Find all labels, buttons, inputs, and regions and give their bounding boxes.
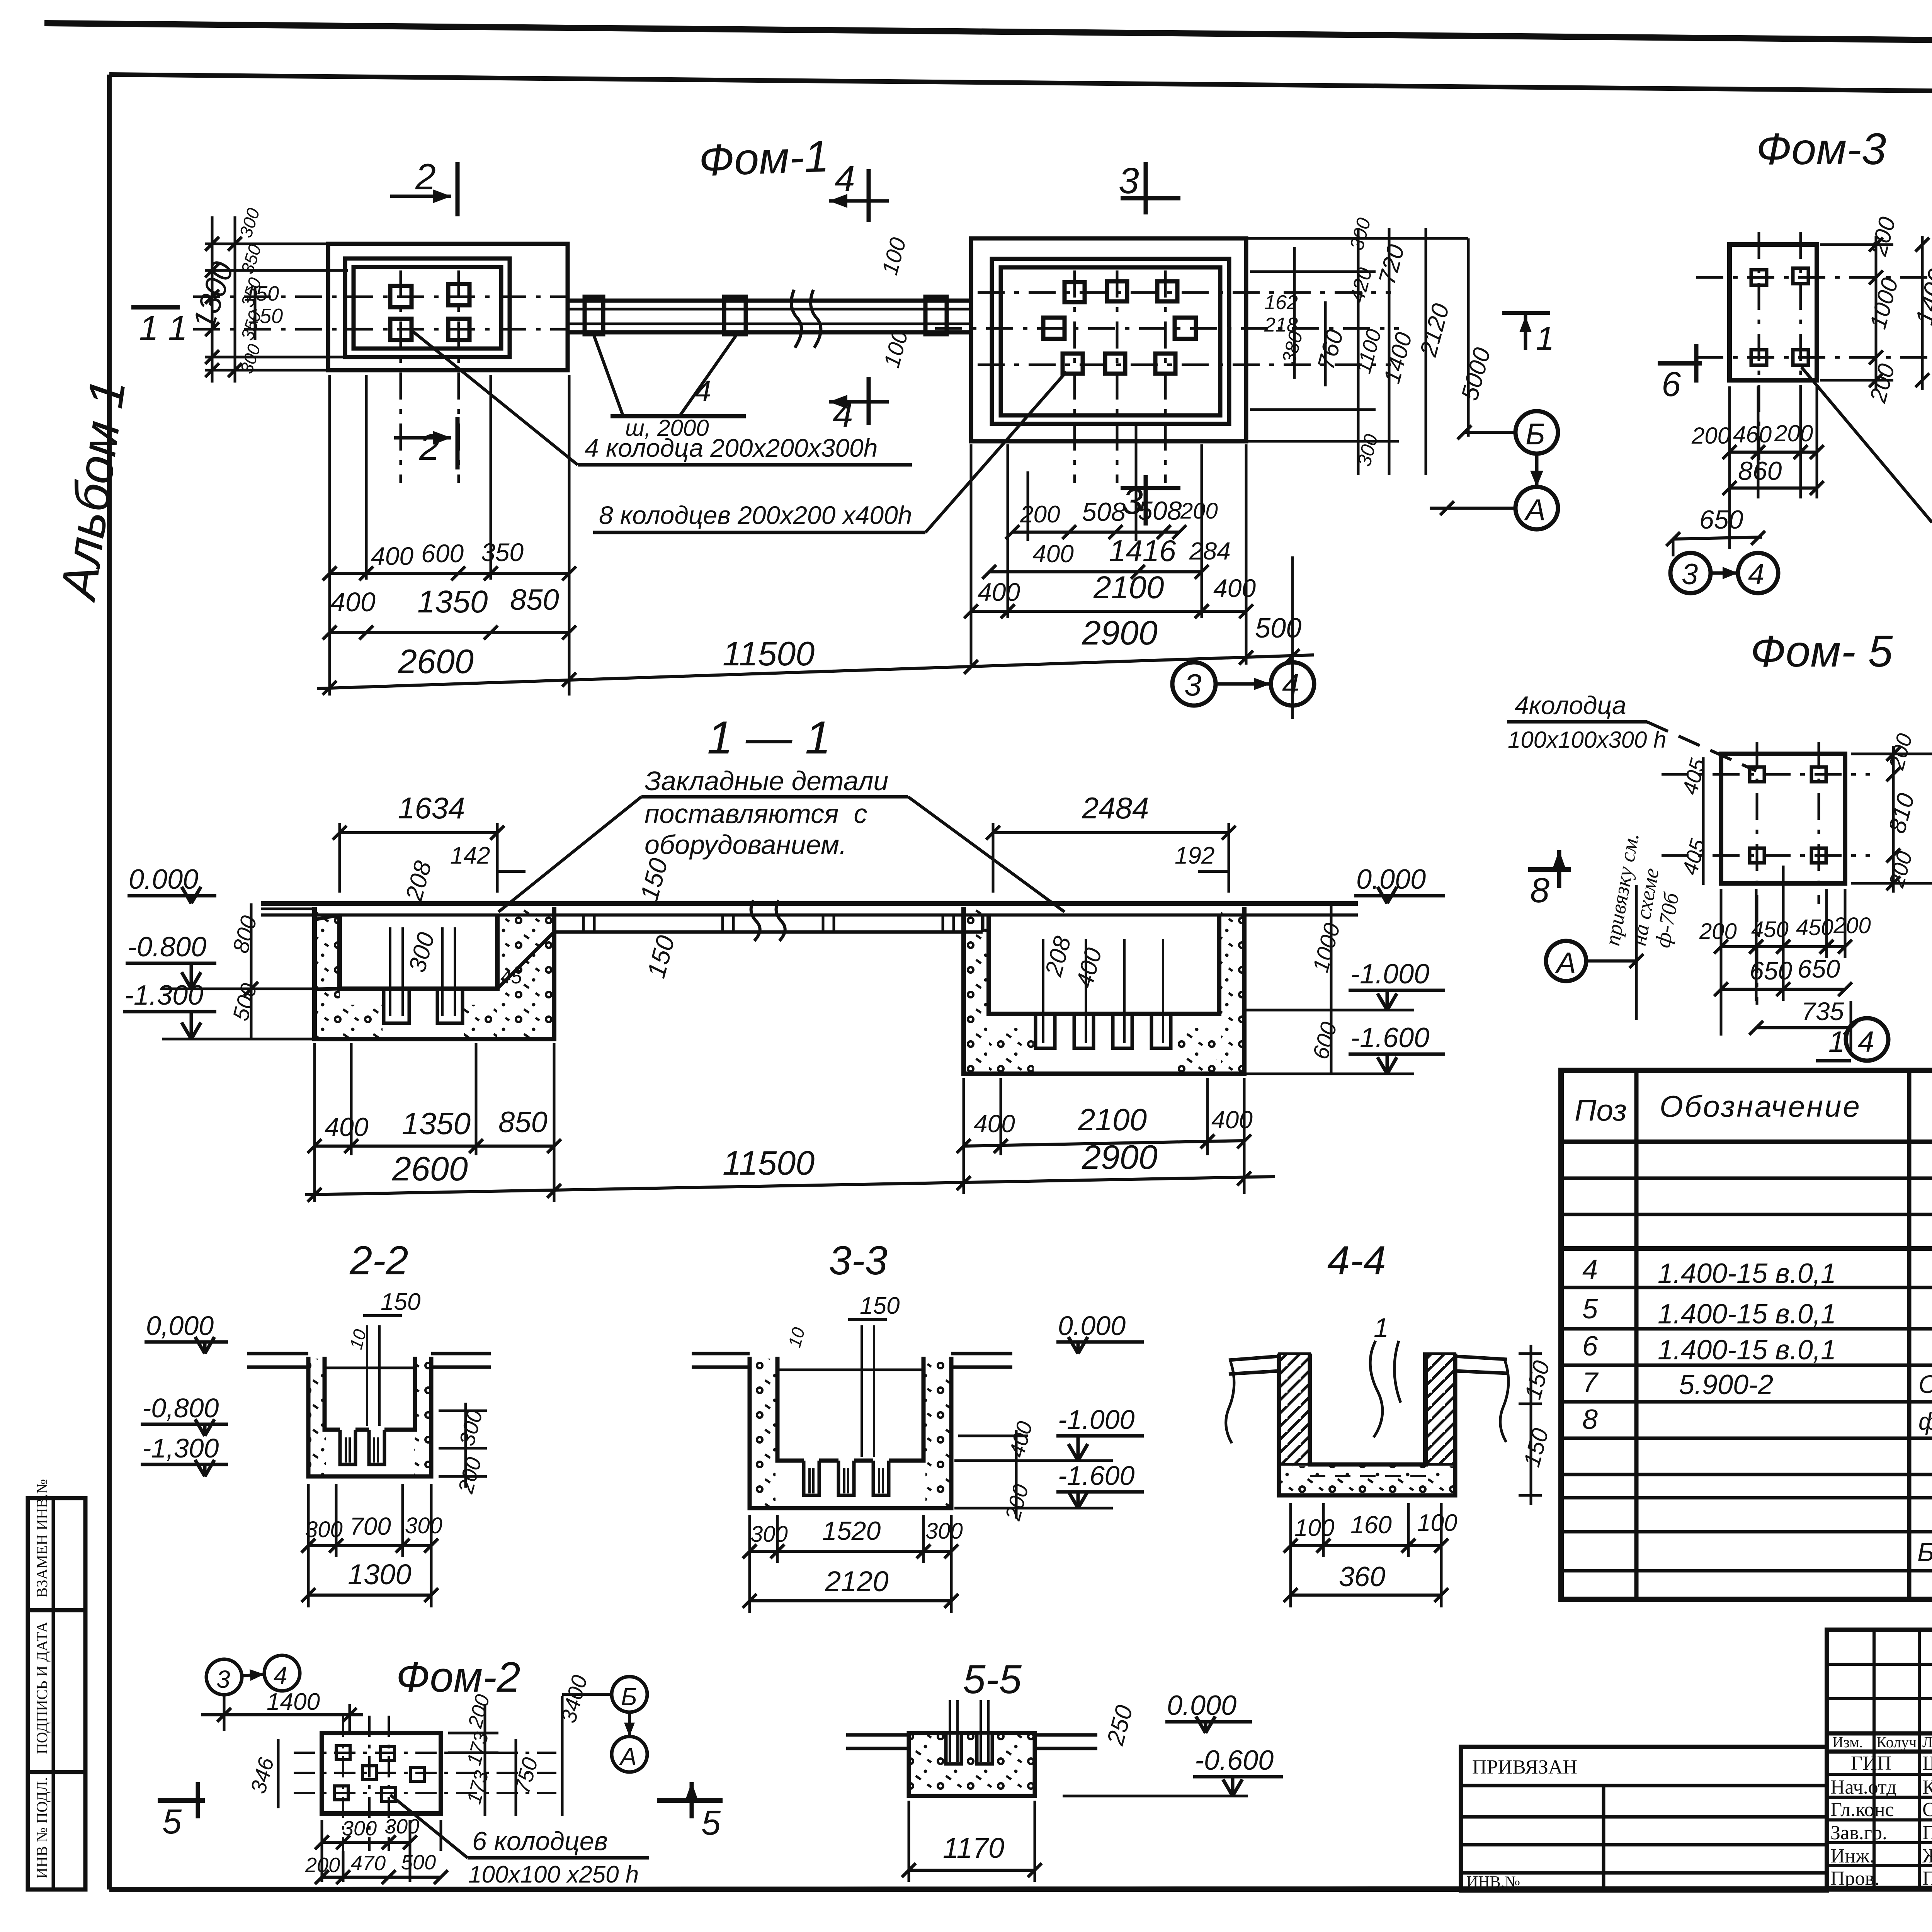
svg-text:400: 400 <box>1032 540 1074 568</box>
svg-text:450: 450 <box>1796 915 1833 940</box>
svg-text:3: 3 <box>1682 558 1698 591</box>
svg-text:350: 350 <box>481 538 524 566</box>
svg-text:400: 400 <box>1211 1106 1253 1134</box>
svg-text:2900: 2900 <box>1082 1138 1158 1176</box>
svg-text:300: 300 <box>750 1522 788 1547</box>
svg-text:1416: 1416 <box>1109 534 1176 568</box>
svg-text:6: 6 <box>1582 1331 1598 1362</box>
svg-text:200: 200 <box>305 1854 340 1877</box>
svg-text:Штейнгардт: Штейнгардт <box>1922 1752 1932 1774</box>
svg-text:1: 1 <box>1536 320 1554 357</box>
svg-text:Изм.: Изм. <box>1832 1733 1863 1751</box>
svg-text:300: 300 <box>405 1513 442 1538</box>
svg-text:360: 360 <box>1339 1561 1385 1592</box>
svg-text:8 колодцев 200х200 х400h: 8 колодцев 200х200 х400h <box>599 501 912 529</box>
svg-text:160: 160 <box>1350 1511 1392 1539</box>
svg-text:1.400-15 в.0,1: 1.400-15 в.0,1 <box>1658 1335 1836 1366</box>
svg-text:0.000: 0.000 <box>1356 864 1426 895</box>
svg-text:1: 1 <box>1374 1313 1389 1343</box>
svg-text:Фом-1: Фом-1 <box>698 131 830 185</box>
svg-text:45: 45 <box>500 966 522 988</box>
svg-text:650: 650 <box>1750 956 1792 985</box>
svg-text:200: 200 <box>1699 919 1737 944</box>
svg-text:150: 150 <box>860 1293 900 1319</box>
svg-text:700: 700 <box>350 1512 391 1540</box>
svg-text:100х100 х250 h: 100х100 х250 h <box>468 1861 639 1888</box>
svg-text:400: 400 <box>974 1110 1015 1138</box>
svg-text:ф16АШ Гост5781-82 ℓ=1350: ф16АШ Гост5781-82 ℓ=1350 <box>1918 1408 1932 1435</box>
svg-text:2900: 2900 <box>1082 614 1158 652</box>
svg-text:4 колодца 200х200х300h: 4 колодца 200х200х300h <box>585 434 878 462</box>
svg-text:Соловьева: Соловьева <box>1922 1799 1932 1821</box>
svg-text:8: 8 <box>1530 871 1549 910</box>
svg-text:1.400-15 в.0,1: 1.400-15 в.0,1 <box>1658 1299 1836 1330</box>
svg-text:А: А <box>1524 493 1546 527</box>
svg-text:5.900-2: 5.900-2 <box>1679 1369 1773 1400</box>
svg-text:ИНВ.№: ИНВ.№ <box>1466 1873 1520 1891</box>
svg-text:8: 8 <box>1582 1404 1598 1435</box>
svg-text:1 1: 1 1 <box>139 309 187 348</box>
svg-text:11500: 11500 <box>723 634 815 673</box>
svg-text:3: 3 <box>1119 160 1139 201</box>
svg-text:0.000: 0.000 <box>1167 1690 1236 1721</box>
svg-text:4: 4 <box>274 1662 287 1689</box>
svg-text:Панкратова: Панкратова <box>1922 1867 1932 1889</box>
svg-text:-0.800: -0.800 <box>128 932 206 963</box>
svg-text:850: 850 <box>510 583 559 616</box>
svg-text:2: 2 <box>415 156 436 197</box>
svg-text:200: 200 <box>1020 501 1060 528</box>
svg-text:300: 300 <box>305 1517 343 1542</box>
svg-text:-0.600: -0.600 <box>1195 1745 1274 1776</box>
svg-text:Б: Б <box>621 1683 637 1711</box>
svg-text:400: 400 <box>1213 574 1256 602</box>
svg-text:4: 4 <box>1582 1254 1598 1285</box>
svg-text:300: 300 <box>925 1519 963 1544</box>
svg-text:-0,800: -0,800 <box>142 1393 219 1423</box>
svg-text:4-4: 4-4 <box>1327 1238 1386 1283</box>
svg-text:-1.000: -1.000 <box>1058 1405 1135 1435</box>
svg-text:284: 284 <box>1189 537 1231 565</box>
svg-text:500: 500 <box>1255 613 1301 644</box>
svg-text:Фом- 5: Фом- 5 <box>1750 627 1893 676</box>
svg-text:460: 460 <box>1733 422 1772 447</box>
svg-text:4: 4 <box>1748 558 1764 591</box>
svg-text:4: 4 <box>1282 668 1299 702</box>
svg-text:3: 3 <box>1184 668 1202 702</box>
svg-text:2600: 2600 <box>392 1150 468 1188</box>
svg-text:Закладные детали: Закладные детали <box>645 766 888 796</box>
svg-text:200: 200 <box>1180 498 1218 524</box>
svg-text:Пров.: Пров. <box>1830 1867 1879 1889</box>
svg-text:Лист: Лист <box>1922 1733 1932 1751</box>
svg-text:860: 860 <box>1738 456 1782 486</box>
svg-text:2120: 2120 <box>825 1565 889 1597</box>
svg-text:508: 508 <box>1082 497 1126 527</box>
svg-text:Жохова: Жохова <box>1922 1845 1932 1867</box>
svg-text:200: 200 <box>1691 423 1730 449</box>
svg-text:470: 470 <box>351 1852 386 1875</box>
svg-text:6: 6 <box>1662 365 1681 404</box>
svg-text:400: 400 <box>325 1112 369 1142</box>
svg-text:Бетон класса В15: Бетон класса В15 <box>1917 1537 1932 1567</box>
svg-text:5-5: 5-5 <box>963 1657 1022 1702</box>
svg-text:1350: 1350 <box>402 1106 471 1141</box>
svg-text:1300: 1300 <box>348 1558 412 1590</box>
svg-text:-1.600: -1.600 <box>1058 1461 1135 1491</box>
svg-text:4: 4 <box>1858 1026 1874 1058</box>
svg-text:150: 150 <box>244 282 279 305</box>
svg-text:0.000: 0.000 <box>1058 1311 1126 1341</box>
svg-text:150: 150 <box>248 304 283 328</box>
svg-text:1520: 1520 <box>822 1516 881 1546</box>
svg-text:Сальник ду200 ℓ=300: Сальник ду200 ℓ=300 <box>1918 1370 1932 1398</box>
svg-text:3-3: 3-3 <box>829 1238 888 1283</box>
svg-text:7: 7 <box>1582 1367 1599 1398</box>
svg-text:300: 300 <box>384 1815 419 1838</box>
svg-text:1350: 1350 <box>417 584 488 619</box>
svg-text:2-2: 2-2 <box>349 1238 408 1283</box>
svg-text:ИНВ № ПОДЛ.: ИНВ № ПОДЛ. <box>33 1777 51 1879</box>
svg-text:162: 162 <box>1264 291 1298 314</box>
svg-text:Гл.конс: Гл.конс <box>1830 1799 1894 1821</box>
svg-text:-1.000: -1.000 <box>1350 959 1429 990</box>
svg-text:Фом-3: Фом-3 <box>1756 124 1886 174</box>
svg-text:600: 600 <box>421 539 464 568</box>
svg-text:оборудованием.: оборудованием. <box>645 830 847 860</box>
svg-text:1: 1 <box>1828 1026 1845 1058</box>
svg-text:А: А <box>619 1743 637 1770</box>
svg-text:0.000: 0.000 <box>129 864 198 895</box>
svg-text:100х100х300 h: 100х100х300 h <box>1508 727 1666 753</box>
svg-text:11500: 11500 <box>723 1144 815 1182</box>
svg-text:2600: 2600 <box>398 642 474 680</box>
svg-text:2100: 2100 <box>1078 1102 1147 1137</box>
svg-text:850: 850 <box>498 1106 548 1139</box>
svg-text:735: 735 <box>1801 997 1844 1026</box>
svg-text:1 — 1: 1 — 1 <box>707 712 831 764</box>
svg-text:Фом-2: Фом-2 <box>396 1653 520 1701</box>
svg-text:650: 650 <box>1798 954 1840 983</box>
svg-text:2484: 2484 <box>1082 791 1149 825</box>
svg-text:508: 508 <box>1138 496 1182 526</box>
svg-text:ПОДПИСЬ И ДАТА: ПОДПИСЬ И ДАТА <box>33 1622 51 1754</box>
svg-text:Нач.отд: Нач.отд <box>1830 1776 1897 1798</box>
svg-text:Панкратова: Панкратова <box>1922 1822 1932 1844</box>
svg-text:100: 100 <box>1417 1510 1457 1536</box>
svg-text:поставляются с: поставляются с <box>645 799 867 829</box>
svg-text:450: 450 <box>1751 917 1789 942</box>
svg-text:400: 400 <box>978 578 1020 606</box>
svg-text:300: 300 <box>342 1817 377 1840</box>
svg-text:2100: 2100 <box>1093 570 1164 605</box>
svg-text:Инж.: Инж. <box>1830 1845 1874 1867</box>
svg-text:Колуч: Колуч <box>1876 1733 1917 1751</box>
svg-text:1.400-15 в.0,1: 1.400-15 в.0,1 <box>1658 1258 1836 1289</box>
svg-text:192: 192 <box>1175 842 1214 869</box>
svg-text:500: 500 <box>401 1851 436 1874</box>
svg-text:5: 5 <box>1582 1294 1598 1325</box>
svg-text:ВЗАМЕН ИНВ.№: ВЗАМЕН ИНВ.№ <box>33 1479 51 1598</box>
svg-text:-1.600: -1.600 <box>1350 1022 1429 1053</box>
svg-text:4: 4 <box>835 158 855 199</box>
svg-text:1634: 1634 <box>398 791 465 825</box>
svg-text:6 колодцев: 6 колодцев <box>472 1827 608 1856</box>
svg-text:3: 3 <box>216 1665 230 1693</box>
svg-text:150: 150 <box>381 1289 420 1315</box>
svg-text:142: 142 <box>450 842 490 869</box>
svg-text:650: 650 <box>1699 505 1743 534</box>
svg-text:Б: Б <box>1526 417 1545 451</box>
svg-text:1400: 1400 <box>267 1689 320 1715</box>
svg-text:Косов: Косов <box>1922 1776 1932 1798</box>
svg-text:200: 200 <box>1833 913 1871 938</box>
svg-text:-1,300: -1,300 <box>142 1433 219 1463</box>
svg-text:Поз: Поз <box>1575 1093 1627 1127</box>
svg-text:А: А <box>1555 947 1576 980</box>
svg-text:Зав.гр.: Зав.гр. <box>1830 1822 1887 1844</box>
svg-text:ГИП: ГИП <box>1851 1752 1891 1774</box>
svg-text:0,000: 0,000 <box>146 1311 214 1341</box>
svg-text:5: 5 <box>162 1803 182 1841</box>
svg-text:-1.300: -1.300 <box>124 980 203 1011</box>
svg-text:4колодца: 4колодца <box>1515 691 1626 719</box>
svg-text:400: 400 <box>330 587 376 617</box>
svg-text:400: 400 <box>371 542 413 570</box>
svg-text:1170: 1170 <box>943 1832 1004 1864</box>
svg-text:5: 5 <box>701 1804 721 1842</box>
svg-text:ПРИВЯЗАН: ПРИВЯЗАН <box>1472 1756 1577 1778</box>
svg-text:100: 100 <box>1294 1515 1334 1541</box>
svg-text:200: 200 <box>1774 420 1813 446</box>
svg-text:Обозначение: Обозначение <box>1660 1089 1861 1123</box>
